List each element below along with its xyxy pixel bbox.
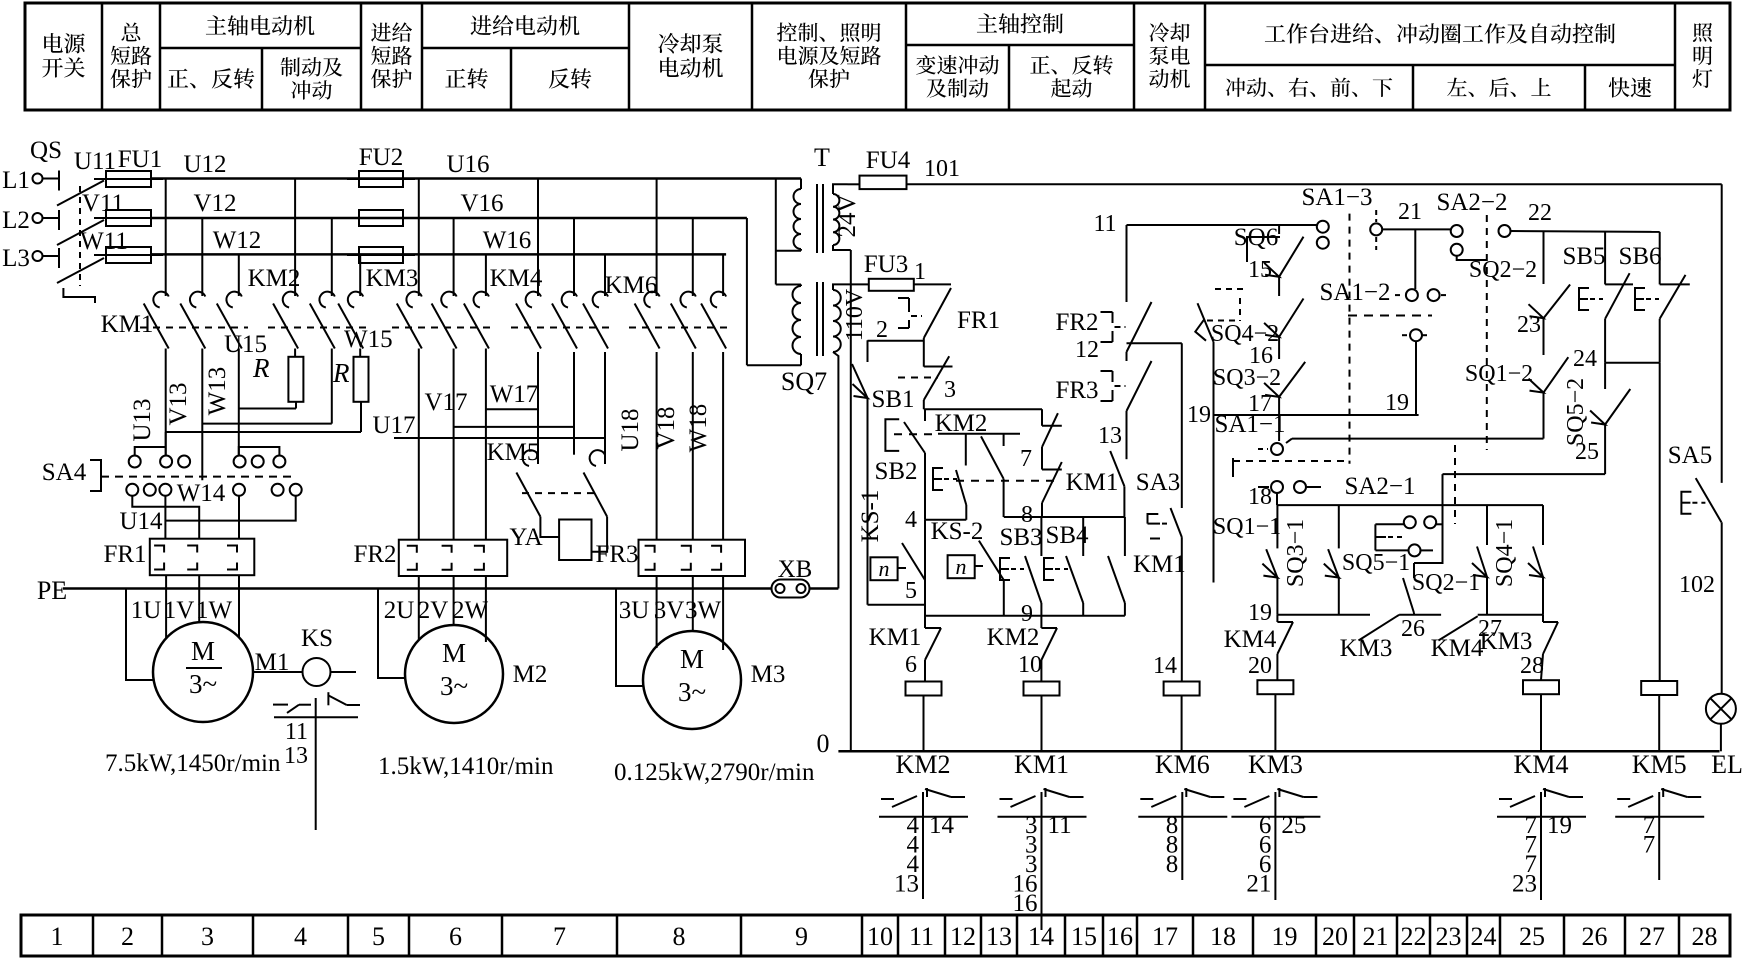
wire from SA1-1 to feed circuit bbox=[1292, 438, 1544, 440]
svg-text:KS-2: KS-2 bbox=[931, 518, 984, 545]
svg-text:11: 11 bbox=[909, 922, 934, 951]
svg-text:18: 18 bbox=[1210, 922, 1236, 951]
svg-text:15: 15 bbox=[1071, 922, 1097, 951]
svg-text:1W: 1W bbox=[196, 597, 233, 624]
svg-text:1: 1 bbox=[914, 259, 926, 285]
svg-text:27: 27 bbox=[1639, 922, 1665, 951]
svg-text:110V: 110V bbox=[842, 288, 868, 341]
24V return wire bbox=[850, 250, 852, 751]
svg-text:SQ5−2: SQ5−2 bbox=[1563, 378, 1589, 446]
svg-text:SQ4−1: SQ4−1 bbox=[1492, 519, 1518, 587]
wire W18 bbox=[722, 352, 724, 540]
wire node 3 line bbox=[924, 408, 1042, 410]
svg-text:SQ2−1: SQ2−1 bbox=[1412, 570, 1480, 596]
svg-text:5: 5 bbox=[372, 922, 385, 951]
transformer T 110V secondary winding bbox=[833, 290, 841, 352]
contactor coil KM6 bbox=[1164, 682, 1200, 696]
svg-text:2: 2 bbox=[876, 317, 888, 343]
svg-text:W13: W13 bbox=[204, 367, 231, 416]
svg-text:25: 25 bbox=[1519, 922, 1545, 951]
header table frame bbox=[25, 3, 1730, 110]
header split lines bbox=[160, 47, 361, 50]
transformer T 24V secondary winding bbox=[833, 194, 839, 245]
svg-text:KM2: KM2 bbox=[987, 624, 1040, 651]
svg-text:3~: 3~ bbox=[678, 677, 706, 707]
svg-text:KM6: KM6 bbox=[605, 272, 658, 299]
svg-text:19: 19 bbox=[1187, 402, 1211, 428]
svg-text:7: 7 bbox=[1020, 446, 1032, 472]
svg-text:0: 0 bbox=[817, 729, 830, 758]
svg-text:SB3: SB3 bbox=[999, 524, 1042, 551]
svg-text:KM4: KM4 bbox=[1514, 750, 1569, 779]
svg-text:KM1: KM1 bbox=[1014, 750, 1069, 779]
svg-text:3: 3 bbox=[944, 377, 956, 403]
power input terminal L2 bbox=[33, 213, 43, 223]
svg-text:12: 12 bbox=[950, 922, 976, 951]
svg-text:4: 4 bbox=[905, 507, 917, 533]
svg-text:21: 21 bbox=[1246, 871, 1271, 898]
svg-text:101: 101 bbox=[924, 156, 960, 182]
svg-text:U13: U13 bbox=[129, 398, 156, 441]
wire KM4 out 3 bbox=[604, 352, 606, 464]
svg-text:R: R bbox=[332, 358, 350, 388]
svg-text:SQ1−2: SQ1−2 bbox=[1465, 361, 1533, 387]
contactor coil KM5 bbox=[1659, 363, 1661, 681]
svg-text:KM3: KM3 bbox=[1248, 750, 1303, 779]
svg-text:U18: U18 bbox=[617, 408, 644, 451]
footer number strip bbox=[21, 915, 1730, 956]
contactor coil KM1 bbox=[1024, 682, 1060, 696]
transformer T upper primary winding bbox=[800, 179, 802, 190]
svg-text:8: 8 bbox=[673, 922, 686, 951]
wire from R1 to W13 bbox=[239, 408, 296, 410]
transformer T lower core bbox=[816, 282, 818, 356]
svg-text:M: M bbox=[680, 644, 704, 674]
svg-text:7.5kW,1450r/min: 7.5kW,1450r/min bbox=[105, 750, 281, 777]
svg-text:V18: V18 bbox=[653, 406, 680, 449]
wire KM4 out 2 bbox=[573, 352, 575, 455]
svg-text:V17: V17 bbox=[424, 389, 467, 416]
svg-text:M: M bbox=[442, 638, 466, 668]
svg-text:M3: M3 bbox=[751, 661, 786, 688]
svg-text:SQ5−1: SQ5−1 bbox=[1342, 550, 1410, 576]
svg-text:KM2: KM2 bbox=[248, 265, 301, 292]
svg-text:U16: U16 bbox=[446, 151, 489, 178]
svg-text:4: 4 bbox=[294, 922, 307, 951]
svg-text:U14: U14 bbox=[119, 508, 163, 535]
svg-text:KS-1: KS-1 bbox=[857, 490, 884, 543]
svg-text:2V: 2V bbox=[418, 597, 449, 624]
svg-text:EL: EL bbox=[1711, 750, 1742, 779]
svg-text:1.5kW,1410r/min: 1.5kW,1410r/min bbox=[378, 753, 554, 780]
header col 10 工作台进给、冲动圈工作及自动控制 bbox=[1265, 25, 1285, 42]
svg-text:14: 14 bbox=[1153, 653, 1177, 679]
limit switch SQ2-1 bbox=[1486, 505, 1488, 545]
svg-text:3~: 3~ bbox=[189, 669, 217, 699]
svg-text:19: 19 bbox=[1547, 812, 1572, 839]
svg-text:M2: M2 bbox=[513, 661, 548, 688]
bus U12/U16 bbox=[151, 177, 801, 180]
power input terminal L3 bbox=[33, 251, 43, 261]
svg-text:0.125kW,2790r/min: 0.125kW,2790r/min bbox=[614, 759, 815, 786]
svg-text:FU4: FU4 bbox=[866, 147, 911, 174]
svg-text:W18: W18 bbox=[685, 404, 712, 453]
svg-text:3U: 3U bbox=[619, 597, 650, 624]
svg-text:KM6: KM6 bbox=[1155, 750, 1210, 779]
svg-text:14: 14 bbox=[929, 812, 955, 839]
contactor KM1 auxiliary NO contact (self-hold) bbox=[1042, 462, 1062, 503]
svg-text:SB5: SB5 bbox=[1562, 243, 1605, 270]
svg-text:SA2−1: SA2−1 bbox=[1344, 473, 1415, 500]
wire U18 bbox=[656, 352, 658, 540]
svg-text:V13: V13 bbox=[165, 382, 192, 425]
limit switch SQ7 contact 1 bbox=[867, 340, 869, 362]
limit switch SQ7 contact 2 bbox=[924, 366, 953, 368]
svg-text:5: 5 bbox=[905, 578, 917, 604]
svg-text:25: 25 bbox=[1281, 812, 1306, 839]
svg-text:W16: W16 bbox=[483, 227, 532, 254]
svg-text:V16: V16 bbox=[460, 190, 503, 217]
svg-text:FR2: FR2 bbox=[353, 541, 396, 568]
svg-text:16: 16 bbox=[1013, 890, 1038, 917]
svg-text:FR1: FR1 bbox=[957, 307, 1000, 334]
svg-text:13: 13 bbox=[1098, 423, 1122, 449]
svg-text:24V: 24V bbox=[834, 194, 861, 237]
svg-text:17: 17 bbox=[1152, 922, 1178, 951]
svg-text:KM5: KM5 bbox=[487, 439, 540, 466]
svg-text:KM1: KM1 bbox=[101, 311, 154, 338]
header col 1 电源开关 bbox=[44, 33, 63, 53]
svg-text:22: 22 bbox=[1528, 200, 1552, 226]
svg-text:24: 24 bbox=[1471, 922, 1497, 951]
svg-text:SB2: SB2 bbox=[874, 458, 917, 485]
svg-text:9: 9 bbox=[795, 922, 808, 951]
wire node 19 horizontal segment bbox=[1277, 614, 1370, 616]
svg-text:KM5: KM5 bbox=[1632, 750, 1687, 779]
motor M3 bbox=[656, 576, 658, 648]
wire from R2 to U13 bbox=[166, 431, 361, 433]
transformer T core bbox=[816, 184, 818, 253]
transformer T lower primary winding bbox=[800, 285, 802, 287]
header col 8 主轴控制 bbox=[977, 13, 997, 32]
svg-text:W15: W15 bbox=[344, 326, 393, 353]
svg-text:SB6: SB6 bbox=[1618, 243, 1661, 270]
SA4 row2 wiring bbox=[132, 496, 199, 540]
svg-text:28: 28 bbox=[1520, 653, 1544, 679]
power input terminal L1 bbox=[33, 174, 43, 184]
svg-text:2U: 2U bbox=[384, 597, 415, 624]
svg-text:M: M bbox=[191, 636, 215, 666]
svg-text:SA3: SA3 bbox=[1136, 469, 1180, 496]
svg-text:W14: W14 bbox=[177, 480, 226, 507]
svg-text:SQ1−1: SQ1−1 bbox=[1213, 514, 1281, 540]
svg-text:1U: 1U bbox=[131, 597, 162, 624]
header col 6 冷却泵电动机 bbox=[658, 33, 679, 54]
svg-text:U12: U12 bbox=[183, 151, 226, 178]
SA4 row2 contacts bbox=[126, 484, 138, 496]
thermal relay FR1 NC contact bbox=[924, 288, 951, 338]
svg-text:KM3: KM3 bbox=[1480, 628, 1533, 655]
svg-text:SA1−2: SA1−2 bbox=[1319, 279, 1390, 306]
svg-text:FR3: FR3 bbox=[595, 541, 638, 568]
svg-text:SA4: SA4 bbox=[42, 459, 87, 486]
svg-text:FU2: FU2 bbox=[359, 144, 403, 171]
svg-text:19: 19 bbox=[1272, 922, 1298, 951]
svg-text:FR1: FR1 bbox=[103, 541, 146, 568]
svg-text:SQ2−2: SQ2−2 bbox=[1469, 257, 1537, 283]
svg-text:20: 20 bbox=[1248, 653, 1272, 679]
svg-text:KM1: KM1 bbox=[1133, 551, 1186, 578]
svg-text:SA5: SA5 bbox=[1668, 442, 1712, 469]
svg-text:15: 15 bbox=[1248, 257, 1272, 283]
wire W13 bbox=[238, 349, 240, 456]
svg-text:KS: KS bbox=[301, 625, 333, 652]
svg-text:13: 13 bbox=[284, 743, 308, 769]
svg-text:KM3: KM3 bbox=[366, 265, 419, 292]
wire KM4 out 1 bbox=[537, 352, 539, 464]
svg-text:FR3: FR3 bbox=[1055, 377, 1098, 404]
svg-text:23: 23 bbox=[1512, 871, 1537, 898]
wire 18 line bbox=[1277, 504, 1543, 506]
svg-text:R: R bbox=[252, 353, 270, 383]
svg-text:SQ3−2: SQ3−2 bbox=[1213, 365, 1281, 391]
svg-text:3: 3 bbox=[201, 922, 214, 951]
svg-text:16: 16 bbox=[1107, 922, 1133, 951]
svg-text:n: n bbox=[879, 556, 890, 581]
svg-text:8: 8 bbox=[1166, 851, 1179, 878]
bus V12/V16 bbox=[151, 217, 747, 220]
svg-text:SQ7: SQ7 bbox=[781, 367, 827, 396]
contactor coil KM3 bbox=[1257, 680, 1293, 694]
svg-text:M1: M1 bbox=[255, 649, 290, 676]
svg-text:SQ3−1: SQ3−1 bbox=[1283, 519, 1309, 587]
svg-text:19: 19 bbox=[1385, 390, 1409, 416]
svg-text:KM4: KM4 bbox=[1224, 626, 1277, 653]
svg-text:10: 10 bbox=[867, 922, 893, 951]
svg-text:21: 21 bbox=[1398, 199, 1422, 225]
wire from KM2 to V13 bbox=[331, 349, 333, 424]
wire to FR2 phase 3 bbox=[485, 349, 487, 540]
svg-text:PE: PE bbox=[37, 576, 67, 605]
contactor coil KM4 bbox=[1523, 680, 1559, 694]
header col 9 冷却泵电动机 bbox=[1149, 22, 1169, 42]
header col 4 进给短路保护 bbox=[371, 23, 391, 42]
lamp EL bbox=[1706, 694, 1736, 724]
header col 3 主轴电动机 bbox=[206, 15, 226, 34]
svg-text:KM4: KM4 bbox=[490, 265, 543, 292]
svg-text:10: 10 bbox=[1018, 652, 1042, 678]
wire V18 bbox=[692, 352, 694, 540]
svg-text:25: 25 bbox=[1575, 439, 1599, 465]
wire 12 to SA3 branch bbox=[1127, 342, 1182, 344]
header col 2 总短路保护 bbox=[121, 22, 140, 41]
contactor coil KM2 bbox=[906, 682, 942, 696]
svg-text:L3: L3 bbox=[2, 245, 30, 272]
svg-text:FU3: FU3 bbox=[864, 251, 908, 278]
svg-text:24: 24 bbox=[1573, 346, 1597, 372]
svg-text:SA1−3: SA1−3 bbox=[1301, 184, 1372, 211]
limit switch SQ6 second contact bbox=[1198, 303, 1214, 342]
svg-text:2W: 2W bbox=[452, 597, 489, 624]
svg-text:V11: V11 bbox=[82, 190, 124, 217]
svg-text:20: 20 bbox=[1322, 922, 1348, 951]
svg-text:3V: 3V bbox=[654, 597, 685, 624]
svg-text:11: 11 bbox=[1093, 211, 1116, 237]
svg-text:13: 13 bbox=[986, 922, 1012, 951]
svg-text:1: 1 bbox=[51, 922, 64, 951]
svg-text:26: 26 bbox=[1401, 616, 1425, 642]
svg-text:6: 6 bbox=[449, 922, 462, 951]
svg-text:FR2: FR2 bbox=[1055, 309, 1098, 336]
SA4 row1 contacts bbox=[129, 456, 141, 468]
svg-text:28: 28 bbox=[1692, 922, 1718, 951]
svg-text:FU1: FU1 bbox=[118, 146, 162, 173]
svg-text:KM3: KM3 bbox=[1340, 635, 1393, 662]
svg-text:7: 7 bbox=[553, 922, 566, 951]
svg-text:KM4: KM4 bbox=[1431, 635, 1484, 662]
svg-text:3W: 3W bbox=[685, 597, 722, 624]
svg-text:12: 12 bbox=[1075, 337, 1099, 363]
header col 11 照明灯 bbox=[1693, 23, 1712, 42]
svg-text:YA: YA bbox=[509, 524, 542, 551]
svg-text:KM1: KM1 bbox=[1066, 469, 1119, 496]
svg-text:23: 23 bbox=[1517, 312, 1541, 338]
wire V13 bbox=[201, 349, 203, 481]
svg-text:SA2−2: SA2−2 bbox=[1436, 189, 1507, 216]
svg-text:102: 102 bbox=[1679, 572, 1715, 598]
svg-text:22: 22 bbox=[1401, 922, 1427, 951]
svg-text:26: 26 bbox=[1582, 922, 1608, 951]
svg-text:U17: U17 bbox=[372, 412, 415, 439]
svg-text:L2: L2 bbox=[2, 207, 30, 234]
bus W12/W16 bbox=[151, 253, 726, 256]
svg-text:19: 19 bbox=[1248, 600, 1272, 626]
svg-text:6: 6 bbox=[905, 652, 917, 678]
svg-text:T: T bbox=[814, 143, 830, 172]
svg-text:11: 11 bbox=[1048, 812, 1072, 839]
svg-text:SB1: SB1 bbox=[871, 386, 914, 413]
wire U13 bbox=[165, 349, 167, 456]
svg-text:KM2: KM2 bbox=[896, 750, 951, 779]
svg-text:L1: L1 bbox=[2, 167, 30, 194]
svg-text:W11: W11 bbox=[80, 228, 128, 255]
svg-text:1V: 1V bbox=[164, 597, 195, 624]
motor M2 bbox=[418, 576, 420, 640]
svg-text:21: 21 bbox=[1363, 922, 1389, 951]
header col 5 进给电动机 bbox=[471, 15, 492, 35]
svg-text:13: 13 bbox=[894, 871, 919, 898]
wire to FR2 phase 2 bbox=[453, 349, 455, 540]
svg-text:3~: 3~ bbox=[440, 671, 468, 701]
svg-text:n: n bbox=[956, 554, 967, 579]
motor M1 bbox=[165, 575, 167, 639]
svg-text:V12: V12 bbox=[193, 190, 236, 217]
svg-text:7: 7 bbox=[1643, 832, 1656, 859]
svg-text:W17: W17 bbox=[490, 381, 539, 408]
wire to FR2 phase 1 bbox=[418, 349, 420, 540]
svg-text:11: 11 bbox=[285, 719, 308, 745]
header col 7 控制、照明电源及短路保护 bbox=[777, 23, 797, 42]
svg-text:KM1: KM1 bbox=[869, 624, 922, 651]
svg-text:W12: W12 bbox=[213, 227, 262, 254]
svg-text:23: 23 bbox=[1436, 922, 1462, 951]
svg-text:2: 2 bbox=[121, 922, 134, 951]
svg-text:SA1−1: SA1−1 bbox=[1214, 411, 1285, 438]
contactor KM1 auxiliary NC contact upper bbox=[1041, 409, 1043, 426]
svg-text:QS: QS bbox=[30, 137, 62, 164]
